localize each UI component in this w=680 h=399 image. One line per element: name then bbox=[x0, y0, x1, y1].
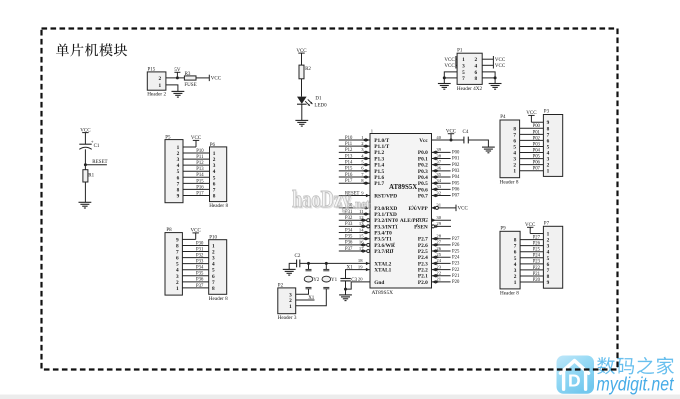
svg-text:P36: P36 bbox=[196, 278, 204, 283]
wire C4 to ground bbox=[468, 140, 488, 147]
wire net P10 P5-P6 bbox=[183, 149, 210, 154]
wire net P02 from U1 pin 37 bbox=[432, 159, 460, 167]
svg-text:P06: P06 bbox=[452, 188, 460, 193]
wire net P11 P5-P6 bbox=[183, 155, 210, 160]
wire D1 to ground bbox=[301, 104, 303, 120]
svg-text:Y2: Y2 bbox=[313, 278, 320, 283]
power VCC (P7) bbox=[525, 223, 543, 234]
capacitor C2 bbox=[295, 254, 301, 267]
LED D1 LED0 bbox=[297, 96, 327, 108]
crystal Y1 bbox=[322, 263, 338, 288]
wire net P33 P8-P10 bbox=[182, 260, 208, 265]
svg-text:P1.2: P1.2 bbox=[374, 150, 384, 156]
svg-text:29: 29 bbox=[436, 221, 441, 226]
svg-text:P25: P25 bbox=[533, 248, 541, 253]
svg-text:Vcc: Vcc bbox=[419, 138, 428, 144]
svg-text:P05: P05 bbox=[452, 181, 460, 186]
wire net P01 P4-P3 bbox=[520, 130, 544, 135]
svg-text:P4: P4 bbox=[500, 115, 506, 120]
svg-text:P12: P12 bbox=[345, 148, 353, 153]
wire net P03 from U1 pin 36 bbox=[432, 166, 460, 174]
crystal Y2 bbox=[304, 263, 320, 288]
wire net P33 to U1 pin 13 bbox=[339, 221, 370, 228]
svg-text:P26: P26 bbox=[452, 243, 460, 248]
wire net P17 P5-P6 bbox=[183, 191, 210, 196]
wire net P07 P4-P3 bbox=[520, 167, 544, 172]
svg-text:1: 1 bbox=[513, 169, 516, 175]
svg-text:Header 2: Header 2 bbox=[147, 92, 166, 98]
connector P7 bbox=[543, 221, 562, 288]
svg-text:4: 4 bbox=[475, 63, 478, 69]
svg-text:EA/VPP: EA/VPP bbox=[408, 206, 428, 212]
svg-text:P1.7: P1.7 bbox=[374, 181, 384, 187]
svg-text:P37: P37 bbox=[196, 284, 204, 289]
wire Y1 to P2 pin 1 bbox=[296, 289, 327, 306]
svg-text:P03: P03 bbox=[533, 142, 541, 147]
svg-text:3: 3 bbox=[462, 63, 465, 69]
svg-text:P9: P9 bbox=[500, 227, 506, 232]
svg-text:RST/VPD: RST/VPD bbox=[374, 193, 397, 199]
svg-text:24: 24 bbox=[436, 258, 441, 263]
wire net P20 P9-P7 bbox=[520, 278, 543, 283]
svg-text:P00: P00 bbox=[452, 151, 460, 156]
svg-text:P2.6: P2.6 bbox=[418, 243, 428, 249]
svg-text:haoDzy: haoDzy bbox=[292, 187, 351, 213]
wire net P14 to U1 pin 5 bbox=[339, 159, 370, 166]
wire net P21 P9-P7 bbox=[520, 272, 543, 277]
wire net P17 to U1 pin 8 bbox=[339, 178, 370, 185]
svg-text:P32: P32 bbox=[345, 216, 353, 221]
svg-text:P37: P37 bbox=[345, 247, 353, 252]
wire net P16 to U1 pin 7 bbox=[339, 172, 370, 179]
svg-text:8: 8 bbox=[212, 286, 215, 292]
ground (D1) bbox=[295, 120, 308, 126]
svg-text:P33: P33 bbox=[345, 222, 353, 227]
svg-text:P04: P04 bbox=[533, 148, 541, 153]
power VCC (P3) bbox=[526, 111, 543, 122]
svg-text:P3.3/INT1: P3.3/INT1 bbox=[374, 224, 398, 230]
wire P15 pin1 to ground bbox=[166, 85, 178, 92]
wire net P22 P9-P7 bbox=[520, 266, 543, 271]
wire net P26 P9-P7 bbox=[520, 242, 543, 247]
svg-text:P35: P35 bbox=[196, 272, 204, 277]
svg-text:P1.4: P1.4 bbox=[374, 163, 384, 169]
svg-text:C1: C1 bbox=[94, 144, 100, 149]
svg-text:37: 37 bbox=[436, 159, 441, 164]
svg-text:P1.1/T: P1.1/T bbox=[374, 144, 389, 150]
svg-text:P14: P14 bbox=[196, 173, 204, 178]
svg-text:14: 14 bbox=[359, 227, 364, 232]
svg-text:P1.5: P1.5 bbox=[374, 169, 384, 175]
svg-text:1: 1 bbox=[462, 57, 465, 63]
svg-text:P03: P03 bbox=[452, 169, 460, 174]
svg-text:P10: P10 bbox=[196, 149, 204, 154]
wire C1 to RESET node bbox=[84, 149, 86, 164]
connector P2 Header 3 bbox=[278, 284, 297, 321]
svg-text:P21: P21 bbox=[533, 272, 541, 277]
wire net P11 to U1 pin 2 bbox=[339, 141, 370, 148]
svg-text:P0.6: P0.6 bbox=[418, 187, 428, 193]
title 单片机模块 bbox=[56, 43, 127, 56]
svg-text:9: 9 bbox=[177, 193, 180, 199]
wire net P34 to U1 pin 14 bbox=[339, 227, 370, 234]
svg-text:C2: C2 bbox=[295, 254, 301, 259]
wire net P31 P8-P10 bbox=[182, 247, 208, 252]
svg-text:P0.7: P0.7 bbox=[418, 193, 428, 199]
wire net P16 P5-P6 bbox=[183, 185, 210, 190]
wire net P04 from U1 pin 35 bbox=[432, 172, 460, 180]
wire net P32 to U1 pin 12 bbox=[339, 215, 370, 222]
connector P3 bbox=[543, 109, 562, 176]
wire C2 to ground bbox=[289, 263, 296, 269]
svg-text:1: 1 bbox=[159, 83, 162, 89]
ground (C3) bbox=[339, 295, 352, 301]
svg-text:38: 38 bbox=[436, 153, 441, 158]
svg-text:P15: P15 bbox=[345, 167, 353, 172]
wire net P22 from U1 pin 23 bbox=[432, 264, 460, 272]
wire net P30 to U1 pin 10 bbox=[339, 203, 370, 210]
svg-text:XTAL2: XTAL2 bbox=[374, 261, 391, 267]
wire U1 pin 20 Gnd bbox=[346, 276, 371, 289]
svg-text:P2.2: P2.2 bbox=[418, 267, 428, 273]
svg-text:P3.0/RXD: P3.0/RXD bbox=[374, 206, 397, 212]
svg-text:Gnd: Gnd bbox=[374, 280, 384, 286]
svg-text:P20: P20 bbox=[452, 280, 460, 285]
wire net P26 from U1 pin 27 bbox=[432, 240, 460, 248]
wire net P25 P9-P7 bbox=[520, 248, 543, 253]
pin names U1 bbox=[374, 138, 428, 286]
wire P1 pins 5,7 to ground bbox=[444, 72, 457, 84]
ground (P1 left) bbox=[438, 84, 451, 90]
power VCC (P1 pin3) bbox=[444, 62, 457, 69]
wire net P27 from U1 pin 28 bbox=[432, 234, 460, 242]
svg-text:P2.7: P2.7 bbox=[418, 237, 428, 243]
svg-text:1: 1 bbox=[176, 286, 179, 292]
ground (R1) bbox=[79, 202, 92, 208]
junction VCC/C4 bbox=[450, 139, 453, 142]
junction Y2/XTAL2 bus bbox=[307, 262, 310, 265]
ground (P15) bbox=[172, 91, 185, 97]
svg-text:P34: P34 bbox=[345, 228, 353, 233]
svg-text:1: 1 bbox=[289, 304, 292, 310]
power VCC (pin40) bbox=[446, 129, 457, 140]
capacitor C3 bbox=[340, 278, 357, 283]
power VCC (R3) bbox=[209, 75, 221, 82]
power VCC (P5) bbox=[183, 136, 202, 147]
svg-text:P2.1: P2.1 bbox=[418, 274, 428, 280]
connector P6 Header 8 bbox=[209, 143, 228, 209]
power VCC (EA/VPP) bbox=[456, 205, 468, 212]
wire net P15 P5-P6 bbox=[183, 179, 210, 184]
wire net P34 P8-P10 bbox=[182, 266, 208, 271]
wire net P03 P4-P3 bbox=[520, 142, 544, 147]
wire XTAL1 (U1 pin 19) bbox=[346, 264, 371, 278]
junction 5V/R3 bbox=[176, 76, 179, 79]
svg-text:X1: X1 bbox=[347, 265, 354, 270]
wire net P21 from U1 pin 22 bbox=[432, 271, 460, 279]
wire net P23 P9-P7 bbox=[520, 260, 543, 265]
svg-text:D1: D1 bbox=[315, 96, 322, 101]
resistor R1 bbox=[83, 165, 95, 182]
wire P15 pin2 to 5V node bbox=[166, 77, 185, 79]
junction P1 pin8 bbox=[494, 76, 497, 79]
svg-text:9: 9 bbox=[547, 280, 550, 286]
power 5V bbox=[174, 68, 181, 78]
svg-text:P7: P7 bbox=[544, 221, 550, 226]
svg-text:8: 8 bbox=[213, 193, 216, 199]
svg-text:AT89S5X: AT89S5X bbox=[372, 290, 394, 296]
svg-text:P2.0: P2.0 bbox=[418, 280, 428, 286]
connector P9 Header 8 bbox=[500, 227, 520, 297]
power VCC (P8) bbox=[182, 229, 201, 240]
svg-text:33: 33 bbox=[436, 184, 441, 189]
power VCC (P1 pin4) bbox=[482, 62, 506, 69]
svg-text:P17: P17 bbox=[345, 179, 353, 184]
connector P8 bbox=[165, 228, 182, 295]
wire net P13 P5-P6 bbox=[183, 167, 210, 172]
svg-text:P1.6: P1.6 bbox=[374, 175, 384, 181]
connector P15 Header 2 bbox=[147, 67, 166, 97]
svg-text:28: 28 bbox=[436, 234, 441, 239]
ground (C2) bbox=[283, 269, 296, 275]
svg-text:P16: P16 bbox=[196, 185, 204, 190]
svg-text:Header 3: Header 3 bbox=[278, 315, 297, 321]
svg-text:P2.4: P2.4 bbox=[418, 255, 428, 261]
svg-text:2: 2 bbox=[159, 76, 162, 82]
resistor R3 FUSE bbox=[184, 72, 196, 88]
resistor R2 bbox=[299, 65, 311, 79]
wire net P37 P8-P10 bbox=[182, 284, 208, 289]
svg-text:15: 15 bbox=[359, 234, 364, 239]
wire P1 pins 6,8 to ground bbox=[482, 72, 495, 84]
svg-text:19: 19 bbox=[358, 264, 363, 269]
svg-text:27: 27 bbox=[436, 240, 441, 245]
svg-text:P01: P01 bbox=[452, 157, 460, 162]
svg-text:P0.3: P0.3 bbox=[418, 169, 428, 175]
svg-text:32: 32 bbox=[436, 190, 441, 195]
svg-text:39: 39 bbox=[436, 147, 441, 152]
wire U1 pin 40 Vcc bbox=[432, 135, 464, 140]
svg-text:20: 20 bbox=[358, 276, 363, 281]
svg-text:8: 8 bbox=[475, 76, 478, 82]
wire net P15 to U1 pin 6 bbox=[339, 166, 370, 173]
svg-text:23: 23 bbox=[436, 264, 441, 269]
wire net P36 P8-P10 bbox=[182, 278, 208, 283]
svg-text:P3.6/WR: P3.6/WR bbox=[374, 243, 395, 249]
wire net P31 to U1 pin 11 bbox=[339, 209, 370, 216]
svg-text:VCC: VCC bbox=[495, 58, 506, 63]
svg-text:P34: P34 bbox=[196, 266, 204, 271]
svg-text:35: 35 bbox=[436, 172, 441, 177]
svg-text:P02: P02 bbox=[533, 136, 541, 141]
svg-text:P3.2/INT0: P3.2/INT0 bbox=[374, 218, 398, 224]
svg-text:P3.4/T0: P3.4/T0 bbox=[374, 230, 392, 236]
svg-text:Header 8: Header 8 bbox=[209, 296, 228, 302]
svg-text:P10: P10 bbox=[345, 136, 353, 141]
svg-text:2: 2 bbox=[475, 57, 478, 63]
svg-text:P3.7/RD: P3.7/RD bbox=[374, 249, 393, 255]
svg-text:VCC: VCC bbox=[458, 207, 469, 212]
border frame bbox=[42, 29, 618, 370]
svg-text:30: 30 bbox=[436, 215, 441, 220]
svg-text:34: 34 bbox=[436, 178, 441, 183]
svg-text:Header 8: Header 8 bbox=[500, 291, 519, 297]
op-amp U1 AT89S5X body bbox=[370, 128, 432, 296]
svg-text:1: 1 bbox=[547, 169, 550, 175]
svg-text:P0.1: P0.1 bbox=[418, 156, 428, 162]
svg-text:P25: P25 bbox=[452, 249, 460, 254]
svg-text:P04: P04 bbox=[452, 175, 460, 180]
svg-text:P01: P01 bbox=[533, 130, 541, 135]
wire net P13 to U1 pin 4 bbox=[339, 153, 370, 160]
svg-text:R1: R1 bbox=[88, 173, 94, 178]
watermark haoDzy.net bbox=[292, 187, 372, 215]
svg-text:Header 8: Header 8 bbox=[209, 203, 228, 209]
svg-text:P31: P31 bbox=[196, 247, 204, 252]
svg-text:P21: P21 bbox=[452, 274, 460, 279]
junction C3/Gnd bbox=[344, 288, 347, 291]
svg-text:P0.5: P0.5 bbox=[418, 181, 428, 187]
svg-text:P0.4: P0.4 bbox=[418, 175, 428, 181]
wire R3 to VCC bbox=[196, 77, 209, 79]
svg-text:VCC: VCC bbox=[211, 77, 222, 82]
svg-text:P13: P13 bbox=[345, 154, 353, 159]
svg-text:P11: P11 bbox=[345, 142, 353, 147]
wire net P07 from U1 pin 32 bbox=[432, 190, 460, 198]
svg-text:26: 26 bbox=[436, 246, 441, 251]
svg-text:P20: P20 bbox=[533, 278, 541, 283]
svg-text:P0.2: P0.2 bbox=[418, 163, 428, 169]
svg-text:P24: P24 bbox=[452, 255, 460, 260]
logo text 数码之家 bbox=[597, 357, 674, 375]
power VCC (reset branch) bbox=[80, 128, 91, 144]
svg-text:P16: P16 bbox=[345, 173, 353, 178]
svg-text:RESET: RESET bbox=[92, 160, 107, 165]
svg-text:XTAL1: XTAL1 bbox=[374, 267, 391, 273]
connector P10 Header 8 bbox=[209, 236, 228, 303]
svg-text:P17: P17 bbox=[196, 191, 204, 196]
svg-text:Y1: Y1 bbox=[331, 278, 338, 283]
wire net P05 P4-P3 bbox=[520, 155, 544, 160]
svg-text:Header 4X2: Header 4X2 bbox=[457, 86, 483, 92]
svg-text:P13: P13 bbox=[196, 167, 204, 172]
svg-text:P05: P05 bbox=[533, 155, 541, 160]
svg-text:LED0: LED0 bbox=[314, 103, 327, 108]
svg-text:18: 18 bbox=[358, 258, 363, 263]
svg-text:ALE/PROG: ALE/PROG bbox=[400, 218, 429, 224]
svg-text:P06: P06 bbox=[533, 161, 541, 166]
svg-text:P30: P30 bbox=[196, 241, 204, 246]
svg-text:P3.5/T1: P3.5/T1 bbox=[374, 237, 392, 243]
svg-text:40: 40 bbox=[436, 135, 441, 140]
svg-text:P36: P36 bbox=[345, 241, 353, 246]
svg-text:P23: P23 bbox=[452, 262, 460, 267]
svg-text:P35: P35 bbox=[345, 235, 353, 240]
wire R2 to D1 bbox=[301, 79, 303, 97]
svg-text:FUSE: FUSE bbox=[184, 83, 196, 88]
wire net P35 to U1 pin 15 bbox=[339, 234, 370, 241]
svg-text:R3: R3 bbox=[185, 72, 191, 77]
svg-text:36: 36 bbox=[436, 166, 441, 171]
node RESET bbox=[84, 160, 108, 166]
svg-text:P33: P33 bbox=[196, 260, 204, 265]
wire net P01 from U1 pin 38 bbox=[432, 153, 460, 161]
ground (C4) bbox=[482, 147, 495, 153]
wire net RESET to U1 pin 9 bbox=[339, 190, 370, 197]
svg-text:P27: P27 bbox=[452, 237, 460, 242]
power VCC (P1 pin2) bbox=[482, 56, 506, 63]
wire net P12 P5-P6 bbox=[183, 161, 210, 166]
svg-text:P22: P22 bbox=[452, 268, 460, 273]
wire net P30 P8-P10 bbox=[182, 241, 208, 246]
svg-text:C4: C4 bbox=[463, 130, 469, 135]
svg-text:P15: P15 bbox=[196, 179, 204, 184]
svg-text:D: D bbox=[568, 371, 581, 391]
power VCC (P1 pin1) bbox=[444, 56, 457, 63]
svg-text:P2.5: P2.5 bbox=[418, 249, 428, 255]
capacitor C1 bbox=[79, 141, 100, 150]
svg-text:25: 25 bbox=[436, 252, 441, 257]
svg-text:P07: P07 bbox=[533, 167, 541, 172]
wire XTAL2 bus (U1 pin 18) bbox=[300, 258, 370, 265]
ground (P1 right) bbox=[489, 84, 502, 90]
svg-text:7: 7 bbox=[462, 76, 465, 82]
svg-text:P07: P07 bbox=[452, 194, 460, 199]
wire net P06 from U1 pin 33 bbox=[432, 184, 460, 192]
wire net P23 from U1 pin 24 bbox=[432, 258, 460, 266]
svg-text:P2.3: P2.3 bbox=[418, 261, 428, 267]
svg-text:VCC: VCC bbox=[444, 64, 455, 69]
wire net P24 from U1 pin 25 bbox=[432, 252, 460, 260]
wire R1 to ground bbox=[84, 182, 86, 202]
svg-text:VCC: VCC bbox=[495, 64, 506, 69]
svg-text:P3.1/TXD: P3.1/TXD bbox=[374, 212, 397, 218]
svg-text:R2: R2 bbox=[305, 67, 311, 72]
junction Y1/XTAL2 bus bbox=[325, 262, 328, 265]
wire net P20 from U1 pin 21 bbox=[432, 277, 460, 285]
wire net P10 to U1 pin 1 bbox=[339, 135, 370, 142]
power VCC (LED branch) bbox=[296, 49, 307, 65]
wire net P36 to U1 pin 16 bbox=[339, 240, 370, 247]
svg-text:P1.0/T: P1.0/T bbox=[374, 138, 389, 144]
wire net P06 P4-P3 bbox=[520, 161, 544, 166]
svg-text:Header 8: Header 8 bbox=[500, 179, 519, 185]
svg-text:P14: P14 bbox=[345, 160, 353, 165]
wire net P32 P8-P10 bbox=[182, 253, 208, 258]
svg-text:P1.3: P1.3 bbox=[374, 156, 384, 162]
wire net P14 P5-P6 bbox=[183, 173, 210, 178]
wire net P12 to U1 pin 3 bbox=[339, 147, 370, 154]
svg-text:P27: P27 bbox=[533, 236, 541, 241]
svg-text:P00: P00 bbox=[533, 124, 541, 129]
connector P5 bbox=[165, 135, 183, 202]
svg-text:P12: P12 bbox=[196, 161, 204, 166]
wire U1 pin 30 ALE/PROG bbox=[432, 215, 452, 222]
svg-text:1: 1 bbox=[514, 280, 517, 286]
svg-text:P23: P23 bbox=[533, 260, 541, 265]
wire net P37 to U1 pin 17 bbox=[339, 246, 370, 253]
junction P1 pin7 bbox=[443, 76, 446, 79]
svg-text:PSEN: PSEN bbox=[414, 224, 428, 230]
svg-text:AT89S5X: AT89S5X bbox=[389, 184, 417, 191]
svg-text:P26: P26 bbox=[533, 242, 541, 247]
wire U1 pin 31 EA/VPP to VCC bbox=[432, 203, 457, 210]
svg-text:P11: P11 bbox=[196, 155, 204, 160]
svg-text:P0.0: P0.0 bbox=[418, 150, 428, 156]
wire Y2 to P2 pin 3 bbox=[296, 289, 309, 295]
wire net P05 from U1 pin 34 bbox=[432, 178, 460, 186]
svg-text:P02: P02 bbox=[452, 163, 460, 168]
